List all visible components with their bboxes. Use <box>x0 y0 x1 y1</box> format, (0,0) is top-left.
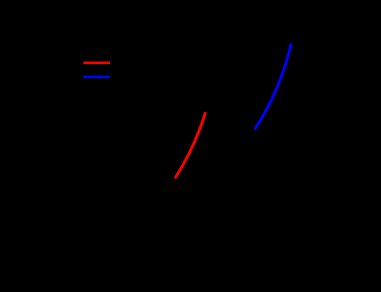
blue curve <box>255 43 291 129</box>
legend red line sample <box>83 62 110 65</box>
legend blue line sample <box>83 76 110 79</box>
red curve <box>175 112 206 178</box>
